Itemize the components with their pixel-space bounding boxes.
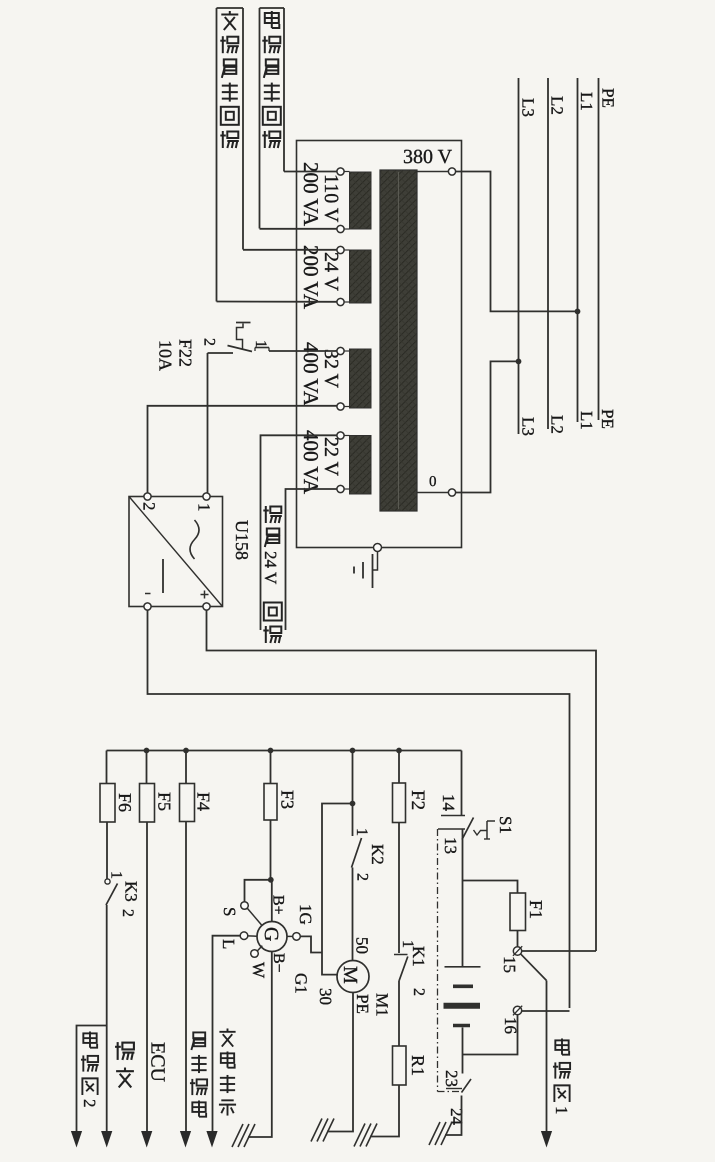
wire 380V terminal to L1 [456,172,578,312]
arrow output (solenoid valve 1) [541,1131,552,1148]
wire U158 minus to relay contact 16 [148,610,570,1008]
wire K3 down [106,905,108,1131]
switch S1 blade [462,818,474,840]
wire U158 pin2 to 32V bottom terminal [148,406,338,493]
S1 terminal 14 tick [441,815,465,817]
svg-text:F4: F4 [194,792,214,811]
svg-text:F3: F3 [278,790,298,809]
svg-text:2: 2 [354,873,371,881]
wire bus to F2 [398,751,400,784]
chassis ground (battery) [429,1122,440,1145]
wire F1 to contact 15 [517,931,519,948]
wire bus to S1 terminal 14 [461,751,463,816]
terminal 0 [448,489,455,496]
fuse F3 [264,784,277,821]
wire F22 to U158 pin1 [207,353,209,493]
terminal circle secondary 6 [344,406,350,408]
svg-text:G: G [260,927,282,941]
transformer secondary winding 110V bar [350,172,372,229]
svg-text:L3: L3 [519,98,538,117]
wire F4 to start key arrow [185,822,187,1132]
wire G B- to chassis ground [248,952,272,1138]
svg-text:K3: K3 [122,881,141,902]
wire U158 plus to relay contact 15 [207,610,597,951]
wire PE bus line [598,78,600,420]
svg-text:1: 1 [108,871,125,879]
alternator G terminal 1G [293,933,301,941]
svg-text:U158: U158 [232,520,252,560]
svg-text:1: 1 [195,503,214,512]
svg-text:F6: F6 [115,793,135,812]
wire motor box right to 110V top terminal [284,171,337,173]
battery plate 2 (short thick) [453,984,473,988]
switch S1 actuator hook [474,830,488,835]
transformer secondary winding 32V bar [350,349,372,408]
switch K2 [352,838,362,868]
terminal circle secondary 7 [344,435,350,437]
wire R1 to chassis ground [370,1085,399,1137]
switch K1 tick [394,954,408,956]
wire 1G step to node 30 [300,936,322,952]
terminal circle secondary 8 [344,488,350,490]
switch K1 blade [399,957,408,981]
junction node on L3 [516,359,522,365]
AC start circuit label text [221,11,238,30]
wire B+ into G [271,880,273,922]
wire AC box right to 24V top terminal [243,249,337,251]
junction node bus x399 [396,748,402,754]
svg-text:ECU: ECU [147,1042,169,1083]
svg-text:L2: L2 [548,96,567,115]
svg-text:15: 15 [500,956,519,973]
junction node bus x186 [183,748,189,754]
transformer T1 enclosure box [297,141,462,548]
arrow output (solenoid valve 2 right) [101,1131,112,1148]
transformer secondary winding 24V bar [350,250,372,303]
motor start circuit label box (dianji qidong huilu) [260,7,285,9]
junction node on L1 [575,309,581,315]
svg-text:23: 23 [442,1070,461,1087]
svg-text:G1: G1 [292,973,311,994]
svg-text:2: 2 [119,909,136,917]
switch K3 [105,879,110,884]
svg-text:S: S [220,907,239,916]
svg-text:50: 50 [353,937,372,954]
U158 DC bar [162,559,164,593]
terminal circle secondary 3 [344,249,350,251]
svg-text:B+: B+ [270,895,287,915]
svg-text:M1: M1 [373,993,392,1017]
fuse F1 [510,893,526,931]
arrow output (start key wire) [180,1131,191,1148]
terminal 380V [448,168,455,175]
svg-text:10A: 10A [156,340,176,371]
svg-text:PE: PE [598,409,617,429]
wire contact 15 to plus feed [522,950,596,952]
wire bus to F5 [146,751,148,785]
wire L1 bus line [577,78,579,422]
battery plate 4 (short thick) [453,1024,470,1028]
svg-text:1G: 1G [296,904,315,925]
svg-text:24: 24 [447,1108,466,1126]
wire L3 bus line [518,78,520,434]
wire motor box left to 110V bottom terminal [260,228,338,230]
regulated 24V circuit label wires (wenya 24V huilu) [261,435,338,630]
battery plate 3 (long thick) [444,1003,481,1009]
alternator G body circle [257,922,287,952]
resistor R1 [393,1046,407,1085]
wire F2 to K1 [398,823,400,954]
wire 24 to chassis ground [445,1096,462,1136]
wire L terminal to charge-indicator arrow [213,936,241,1131]
svg-text:PE: PE [599,88,618,108]
U158 minus sign [145,593,151,595]
U158 pin plus (bottom right) [203,603,210,610]
terminal circle secondary 4 [344,301,350,303]
svg-text:S1: S1 [496,816,515,834]
terminal circle secondary 2 [344,228,350,230]
junction node B+ arm [268,877,274,883]
label solenoid valve 2 (diancifa 2) [83,1031,97,1047]
junction node bus x352 [350,748,356,754]
transformer secondary winding 22V bar [350,436,372,495]
fuse F5 [140,784,155,823]
transformer earth terminal [374,544,382,552]
svg-text:F1: F1 [526,900,546,919]
wire 32V top terminal to F22 [269,350,337,352]
wire bus to F3 [270,751,272,785]
svg-text:380 V: 380 V [403,146,453,168]
relay contact 15 [513,947,521,955]
svg-text:F2: F2 [407,790,428,810]
transformer primary winding bar [380,170,417,511]
svg-text:K2: K2 [368,844,387,865]
regulated 24V circuit label text [263,506,282,523]
svg-text:M: M [339,966,361,984]
U158 pin 2 (top left) [144,493,151,500]
alternator G terminal S [241,902,249,910]
wire 15 blade to solenoid valve 1 [521,954,547,980]
svg-text:2: 2 [410,988,427,996]
wire jog to solenoid valve 2 arrow [77,1026,107,1132]
junction node K2 top [350,801,356,807]
arrow output (solenoid valve 2 left) [71,1131,82,1148]
wire F5 to lighting arrow [146,822,148,1131]
svg-text:L1: L1 [577,411,596,430]
wire lower DC bus [107,750,462,752]
breaker F22 [208,352,234,354]
alternator G terminal L [240,932,248,940]
wire contact 16 to minus feed [522,1010,570,1012]
svg-text:L1: L1 [577,92,596,111]
fuse F2 [393,783,406,823]
arrow output (charge indicator wire) [206,1131,217,1148]
switch 23-24 tick [446,1088,462,1090]
wire bus to F6 [106,751,108,785]
svg-text:W: W [249,962,268,979]
svg-text:2: 2 [140,502,159,511]
alternator G terminal W [251,950,259,958]
svg-text:L2: L2 [548,415,567,434]
svg-text:R1: R1 [408,1055,428,1076]
svg-text:PE: PE [353,994,372,1014]
junction node bus x146 [144,748,150,754]
svg-text:200 VA: 200 VA [299,245,323,310]
motor start circuit label text [265,11,280,28]
svg-text:14: 14 [439,794,458,812]
U158 plus sign [201,594,209,596]
relay contact 16 [513,1006,521,1014]
U158 pin minus (bottom left) [144,603,151,610]
wire K2 to motor terminal 50 [352,868,354,961]
label solenoid valve 1 (diancifa 1) [555,1038,569,1054]
battery plate 1 (long) [445,966,481,968]
starter motor M1 body [337,961,369,993]
svg-text:L3: L3 [519,417,538,436]
svg-text:0: 0 [429,474,437,490]
AC start circuit label box (jiaoliu qidong huilu) [217,7,244,9]
wire M1 PE to chassis ground [327,993,353,1132]
svg-text:2: 2 [201,338,218,346]
svg-text:K1: K1 [409,946,428,967]
battery unit boundary (dash-dot) [437,829,439,1092]
label charge indicator (chongdian zhishi) [219,1028,235,1046]
junction node bus x270 [268,748,274,754]
svg-text:L: L [219,939,238,949]
S1 terminal 13 tick [438,828,465,830]
wire bus to K2 junction [352,751,354,837]
svg-text:30: 30 [316,988,335,1005]
svg-text:F5: F5 [155,792,175,811]
wire junction to S terminal [245,880,271,902]
wire F6 to K3 [106,822,108,879]
wire junction to motor terminal 30 [322,804,353,975]
wire branch to F1 [463,881,518,894]
svg-text:1: 1 [252,340,269,348]
label start key (qidong yaoshi) [191,1032,205,1050]
switch 23-24 blade [462,1079,472,1093]
chassis ground (M1) [311,1119,322,1142]
wire 0 terminal to L3 [456,361,519,492]
rectifier U158 box [129,497,223,607]
wire F3 to B+ junction [270,820,272,880]
arrow output (lighting) [141,1131,152,1148]
svg-text:1: 1 [552,1106,571,1115]
wire 13 to battery and F1 [462,829,464,967]
wire AC box left to 24V bottom terminal [217,301,338,303]
wire battery to contact 16 [463,1015,518,1055]
U158 pin 1 (top right) [203,493,210,500]
wire bus to F4 [185,751,187,785]
svg-text:400 VA: 400 VA [299,430,323,495]
svg-text:1: 1 [353,828,370,836]
terminal circle secondary 1 [344,171,350,173]
wire L2 bus line [547,78,549,429]
svg-text:2: 2 [80,1099,99,1108]
earth ground symbol [373,552,378,571]
svg-text:13: 13 [441,837,460,854]
chassis ground (B-) [232,1124,243,1147]
chassis ground (R1) [354,1124,365,1147]
fuse F6 [100,784,115,823]
svg-text:24 V: 24 V [261,551,280,585]
fuse F4 [180,784,195,822]
U158 AC squiggle [190,520,199,559]
label lighting (dengguang) [115,1042,134,1060]
wire K1 to R1 [398,980,400,1046]
terminal circle secondary 5 [344,350,350,352]
wire battery minus down [462,1028,464,1074]
svg-text:F22: F22 [176,339,196,367]
